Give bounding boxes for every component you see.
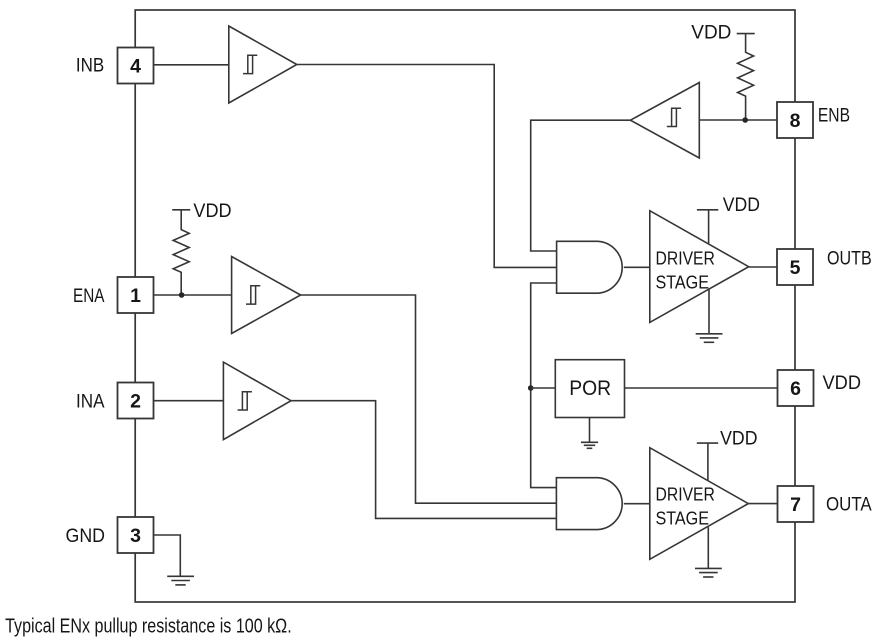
wire AND gate A output to driver A (624, 503, 650, 505)
wire INB buffer output to AND gate B (297, 65, 557, 268)
driver stage A triangle (650, 448, 749, 560)
wire INA pin to buffer (154, 400, 224, 402)
svg-text:POR: POR (569, 377, 611, 400)
wire POR net to POR block (531, 387, 556, 389)
svg-text:INB: INB (76, 55, 104, 77)
resistor pullup ENA (172, 210, 190, 295)
wire ENA pin to buffer (154, 294, 232, 296)
svg-text:8: 8 (790, 110, 801, 132)
svg-text:VDD: VDD (720, 427, 757, 449)
svg-text:ENB: ENB (818, 105, 850, 127)
svg-text:OUTB: OUTB (827, 247, 872, 269)
svg-text:7: 7 (790, 494, 801, 516)
chip boundary (135, 10, 795, 602)
schmitt buffer INB (229, 26, 297, 103)
node POR net junction (528, 385, 534, 391)
schmitt buffer INA (223, 362, 291, 440)
pin box 3 GND (118, 517, 154, 553)
svg-text:1: 1 (130, 285, 141, 307)
AND gate A (556, 478, 622, 530)
pin box 2 INA (118, 383, 154, 419)
pin box 5 OUTB (777, 249, 813, 285)
svg-text:VDD: VDD (691, 22, 731, 44)
svg-text:VDD: VDD (193, 200, 231, 222)
svg-text:VDD: VDD (823, 372, 862, 394)
ground driver A (695, 527, 722, 577)
svg-text:INA: INA (76, 391, 105, 413)
wire POR block to VDD pin (625, 387, 778, 389)
svg-text:OUTA: OUTA (826, 494, 872, 516)
svg-text:GND: GND (66, 525, 106, 547)
pin box 7 OUTA (778, 486, 814, 522)
svg-text:STAGE: STAGE (656, 509, 710, 529)
wire GND pin to ground (154, 535, 181, 576)
wire ENB pin to buffer (699, 119, 777, 121)
svg-text:Typical ENx pullup resistance: Typical ENx pullup resistance is 100 kΩ. (5, 615, 292, 637)
wire INA buffer output to AND gate A (291, 401, 556, 519)
pin box 4 INB (118, 48, 154, 84)
wire POR net to AND gate B lower input (531, 283, 557, 488)
svg-text:DRIVER: DRIVER (656, 484, 715, 504)
svg-text:VDD: VDD (723, 194, 760, 216)
schmitt buffer ENB (points left) (630, 83, 699, 159)
wire driver B output to OUTB pin (749, 266, 777, 268)
svg-text:3: 3 (130, 525, 141, 547)
resistor pullup ENB (737, 34, 755, 120)
schmitt buffer ENA (232, 257, 301, 334)
svg-text:4: 4 (130, 56, 141, 78)
svg-text:6: 6 (790, 378, 801, 400)
node ENB pullup junction (742, 117, 748, 123)
svg-text:STAGE: STAGE (656, 273, 710, 293)
VDD stem driver B (697, 210, 718, 244)
svg-text:5: 5 (790, 257, 801, 279)
POR block (555, 360, 624, 418)
wire ENA buffer output to AND gate A (301, 295, 557, 503)
VDD stem driver A (697, 443, 718, 481)
wire AND gate B output to driver B (624, 266, 650, 268)
ground driver B (696, 289, 723, 342)
ground GND pin (167, 576, 194, 585)
AND gate B (557, 241, 623, 293)
driver stage B triangle (650, 211, 749, 323)
wire driver A output to OUTA pin (748, 503, 777, 505)
wire ENB buffer output to AND gate B (531, 120, 631, 251)
node ENA pullup junction (179, 292, 185, 298)
ground POR (581, 418, 598, 449)
svg-text:ENA: ENA (73, 285, 105, 307)
pin box 8 ENB (777, 102, 813, 138)
svg-text:DRIVER: DRIVER (656, 248, 715, 268)
wire INB pin to buffer (154, 64, 229, 66)
svg-text:2: 2 (130, 391, 141, 413)
pin box 1 ENA (118, 277, 154, 313)
pin box 6 VDD (778, 370, 814, 406)
